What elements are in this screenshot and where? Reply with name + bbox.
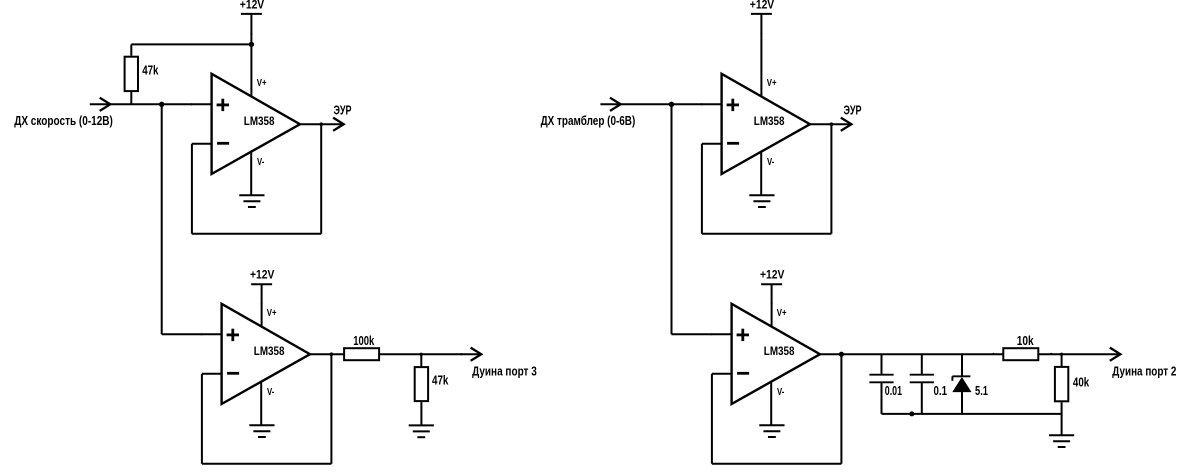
- svg-text:LM358: LM358: [244, 114, 275, 128]
- svg-text:+12V: +12V: [250, 268, 274, 282]
- svg-text:Дуина порт 3: Дуина порт 3: [472, 363, 537, 378]
- svg-text:+12V: +12V: [750, 0, 774, 12]
- svg-text:+12V: +12V: [240, 0, 264, 12]
- svg-text:100k: 100k: [353, 333, 375, 348]
- svg-text:V+: V+: [267, 308, 277, 319]
- svg-text:47k: 47k: [142, 63, 159, 78]
- svg-text:0.01: 0.01: [885, 383, 902, 398]
- svg-text:V-: V-: [767, 157, 775, 168]
- svg-text:ЭУР: ЭУР: [844, 103, 862, 118]
- svg-text:LM358: LM358: [754, 114, 785, 128]
- svg-text:10k: 10k: [1017, 333, 1035, 348]
- svg-text:ДХ скорость (0-12В): ДХ скорость (0-12В): [14, 113, 113, 128]
- svg-text:ДХ трамблер (0-6В): ДХ трамблер (0-6В): [541, 113, 636, 128]
- svg-text:47k: 47k: [432, 373, 449, 388]
- svg-text:V+: V+: [777, 308, 787, 319]
- svg-text:V+: V+: [257, 78, 267, 89]
- svg-text:ЭУР: ЭУР: [334, 103, 352, 118]
- svg-text:V-: V-: [267, 387, 275, 398]
- svg-text:LM358: LM358: [764, 344, 795, 358]
- svg-text:0.1: 0.1: [934, 383, 948, 398]
- svg-text:Дуина порт 2: Дуина порт 2: [1112, 363, 1176, 378]
- svg-text:5.1: 5.1: [975, 383, 988, 398]
- svg-text:40k: 40k: [1073, 375, 1090, 390]
- svg-text:+12V: +12V: [760, 268, 784, 282]
- svg-text:V-: V-: [777, 387, 785, 398]
- svg-text:V-: V-: [257, 157, 265, 168]
- svg-text:LM358: LM358: [254, 344, 285, 358]
- svg-text:V+: V+: [767, 78, 777, 89]
